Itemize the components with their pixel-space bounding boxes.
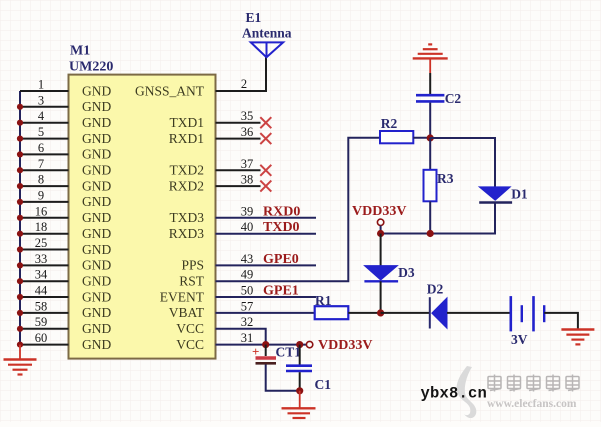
junction dot on GND bus row 3 [17, 136, 23, 142]
svg-text:GND: GND [82, 210, 111, 225]
junction dot on GND bus row 10 [17, 246, 23, 252]
diode D1 [479, 187, 528, 203]
pin 31 wire to VDD33V [216, 331, 307, 345]
svg-text:44: 44 [35, 284, 48, 298]
pin 6 (GND) stub wire [20, 141, 69, 155]
svg-text:VBAT: VBAT [169, 305, 205, 320]
svg-text:38: 38 [241, 173, 254, 187]
svg-text:GNSS_ANT: GNSS_ANT [135, 83, 205, 98]
junction dot on GND bus row 8 [17, 215, 23, 221]
pin 2 wire to antenna [216, 57, 267, 91]
svg-text:3V: 3V [511, 332, 528, 347]
pin 59 (GND) stub wire [20, 315, 69, 329]
svg-text:GND: GND [82, 226, 111, 241]
junction dot on GND bus row 15 [17, 326, 23, 332]
wire D2 to battery [447, 312, 511, 314]
svg-text:M1: M1 [70, 44, 90, 59]
svg-text:32: 32 [241, 315, 254, 329]
svg-text:49: 49 [241, 268, 254, 282]
svg-text:D1: D1 [511, 187, 528, 202]
svg-text:5: 5 [38, 125, 44, 139]
wire node to D1 (top) [430, 138, 495, 187]
junction dot C1 tap node [296, 341, 303, 348]
svg-text:GND: GND [82, 147, 111, 162]
svg-text:UM220: UM220 [69, 60, 113, 75]
wire node to D2 [381, 312, 430, 314]
net label GPE1 [263, 284, 299, 299]
no-connect X mark on pin 36 [260, 133, 271, 144]
pin 36 stub wire [216, 125, 261, 139]
svg-text:E1: E1 [246, 10, 262, 25]
svg-text:GND: GND [82, 99, 111, 114]
net label TXD0 [263, 220, 300, 235]
pin name TXD1 [170, 115, 205, 130]
junction dot on GND bus row 1 [17, 104, 23, 110]
svg-text:VCC: VCC [176, 337, 204, 352]
pin 3 (GND) stub wire [20, 93, 69, 107]
pin 7 (GND) stub wire [20, 157, 69, 171]
pin 25 (GND) stub wire [20, 236, 69, 250]
svg-text:D2: D2 [427, 282, 444, 297]
svg-text:36: 36 [241, 125, 254, 139]
pin 34 (GND) stub wire [20, 268, 69, 282]
pin 33 (GND) stub wire [20, 252, 69, 266]
wire D3 to R1 node [380, 281, 382, 313]
svg-text:RXD1: RXD1 [169, 131, 204, 146]
pin name GND [82, 258, 111, 273]
pin name GND [82, 147, 111, 162]
no-connect X mark on pin 35 [260, 117, 271, 128]
pin 39 net wire [216, 204, 317, 218]
junction dot on GND bus row 12 [17, 278, 23, 284]
junction dot R3 bottom node [427, 230, 434, 237]
svg-text:GND: GND [82, 289, 111, 304]
resistor R2 [380, 116, 413, 143]
junction dot on GND bus row 2 [17, 120, 23, 126]
svg-text:33: 33 [35, 252, 48, 266]
pin 32 wire [216, 315, 266, 344]
svg-text:GND: GND [82, 274, 111, 289]
GND bus wire (left vertical) [19, 91, 21, 345]
pin name EVENT [160, 289, 205, 304]
svg-text:6: 6 [38, 141, 44, 155]
pin 50 net wire [216, 284, 317, 298]
net label GPE0 [263, 252, 299, 267]
svg-text:PPS: PPS [181, 258, 204, 273]
svg-text:ybx8.cn: ybx8.cn [421, 385, 488, 403]
svg-text:TXD1: TXD1 [170, 115, 205, 130]
junction dot on GND bus row 14 [17, 310, 23, 316]
junction dot on GND bus row 5 [17, 167, 23, 173]
resistor R3 [424, 138, 454, 234]
svg-text:GPE0: GPE0 [263, 252, 299, 267]
svg-text:16: 16 [35, 204, 48, 218]
svg-text:31: 31 [241, 331, 254, 345]
pin name TXD3 [170, 210, 205, 225]
pin name RXD1 [169, 131, 204, 146]
svg-text:GND: GND [82, 178, 111, 193]
svg-text:GND: GND [82, 163, 111, 178]
pin name GND [82, 321, 111, 336]
svg-text:RXD2: RXD2 [169, 178, 204, 193]
pin name GND [82, 131, 111, 146]
wire R1 to node [348, 312, 380, 314]
pin name RST [179, 274, 205, 289]
pin 57 wire to R1 [216, 299, 315, 313]
svg-text:VDD33V: VDD33V [318, 338, 372, 353]
capacitor C1 [286, 345, 331, 392]
pin name GND [82, 83, 111, 98]
net label RXD0 [263, 204, 300, 219]
junction dot on GND bus row 6 [17, 183, 23, 189]
pin name PPS [181, 258, 204, 273]
pin 37 stub wire [216, 157, 261, 171]
junction dot on GND bus row 13 [17, 294, 23, 300]
junction dot on GND bus row 4 [17, 151, 23, 157]
battery 3V [511, 296, 544, 347]
junction dot on GND bus row 16 [17, 342, 23, 348]
svg-text:GND: GND [82, 131, 111, 146]
svg-text:58: 58 [35, 299, 48, 313]
junction dot bottom ground node [296, 387, 303, 394]
junction dot R1/D3/D2 node [377, 309, 384, 316]
svg-text:GND: GND [82, 258, 111, 273]
pin name GND [82, 305, 111, 320]
svg-text:57: 57 [241, 299, 254, 313]
svg-text:GND: GND [82, 321, 111, 336]
svg-text:GPE1: GPE1 [263, 284, 299, 299]
pin 40 net wire [216, 220, 317, 234]
svg-text:1: 1 [38, 78, 44, 92]
pin name RXD2 [169, 178, 204, 193]
svg-text:37: 37 [241, 157, 254, 171]
no-connect X mark on pin 38 [260, 181, 271, 192]
diode D2 [427, 282, 447, 329]
svg-text:59: 59 [35, 315, 48, 329]
capacitor C2 [416, 91, 461, 106]
watermark swoosh logo [457, 366, 477, 418]
svg-text:25: 25 [35, 236, 48, 250]
pin 9 (GND) stub wire [20, 188, 69, 202]
ground symbol (top right, red, inverted) [413, 44, 448, 73]
pin 44 (GND) stub wire [20, 284, 69, 298]
wire battery to right ground [544, 313, 578, 330]
pin 43 net wire [216, 252, 317, 266]
svg-text:3: 3 [38, 93, 44, 107]
power port VDD33V (lower) [306, 338, 372, 353]
svg-text:9: 9 [38, 188, 44, 202]
svg-text:7: 7 [38, 157, 44, 171]
svg-text:50: 50 [241, 284, 254, 298]
svg-text:TXD3: TXD3 [170, 210, 205, 225]
svg-text:R1: R1 [315, 293, 332, 308]
pin name VCC (32) [176, 321, 204, 336]
pin name GND [82, 194, 111, 209]
pin name VBAT [169, 305, 205, 320]
pin 5 (GND) stub wire [20, 125, 69, 139]
pin name VCC (31) [176, 337, 204, 352]
svg-text:GND: GND [82, 305, 111, 320]
antenna E1 value label Antenna [242, 26, 292, 41]
svg-text:VCC: VCC [176, 321, 204, 336]
junction dot VDD33V node [377, 230, 384, 237]
junction dot on GND bus row 11 [17, 262, 23, 268]
svg-text:GND: GND [82, 83, 111, 98]
pin 60 (GND) stub wire [20, 331, 69, 345]
capacitor CT1 (polarized) [252, 344, 301, 391]
svg-text:RST: RST [179, 274, 205, 289]
pin 18 (GND) stub wire [20, 220, 69, 234]
wire R2 to node [413, 137, 430, 139]
pin name TXD2 [170, 163, 205, 178]
svg-text:43: 43 [241, 252, 254, 266]
pin 1 (GND) stub wire [20, 78, 69, 92]
watermark chinese characters 电子发烧友 [488, 375, 579, 392]
pin 4 (GND) stub wire [20, 109, 69, 123]
junction dot on GND bus row 7 [17, 199, 23, 205]
svg-text:39: 39 [241, 204, 254, 218]
value UM220 [69, 60, 113, 75]
svg-text:Antenna: Antenna [242, 26, 292, 41]
svg-text:CT1: CT1 [276, 345, 302, 360]
pin 16 (GND) stub wire [20, 204, 69, 218]
pin name GNSS_ANT [135, 83, 205, 98]
no-connect X mark on pin 37 [260, 165, 271, 176]
power port VDD33V (upper) [352, 204, 406, 234]
svg-text:RXD3: RXD3 [169, 226, 205, 241]
svg-text:GND: GND [82, 337, 111, 352]
wire D1 to node row [381, 203, 495, 234]
svg-text:2: 2 [241, 77, 247, 91]
svg-text:60: 60 [35, 331, 48, 345]
pin 8 (GND) stub wire [20, 173, 69, 187]
svg-text:4: 4 [38, 109, 45, 123]
svg-text:35: 35 [241, 109, 254, 123]
wire C2 to node [429, 103, 431, 138]
pin name GND [82, 210, 111, 225]
resistor R1 [315, 293, 349, 319]
svg-text:GND: GND [82, 242, 111, 257]
diode D3 [364, 265, 414, 281]
svg-text:D3: D3 [398, 265, 415, 280]
svg-text:34: 34 [35, 268, 48, 282]
antenna E1 symbol [251, 42, 283, 57]
svg-text:40: 40 [241, 220, 254, 234]
pin name GND [82, 115, 111, 130]
junction dot node R2/C2/R3/D1 [427, 134, 434, 141]
svg-text:C2: C2 [445, 91, 462, 106]
svg-text:R2: R2 [381, 116, 398, 131]
svg-text:8: 8 [38, 173, 44, 187]
wire ground to C2 [429, 73, 431, 94]
svg-text:R3: R3 [437, 171, 454, 186]
wire node to D3 [380, 234, 382, 266]
svg-text:GND: GND [82, 194, 111, 209]
pin name GND [82, 99, 111, 114]
pin 58 (GND) stub wire [20, 299, 69, 313]
pin 49 wire to R2 [216, 138, 381, 282]
svg-text:EVENT: EVENT [160, 289, 205, 304]
designator M1 [70, 44, 90, 59]
pin name GND [82, 289, 111, 304]
watermark ybx8.cn [421, 385, 488, 403]
pin name GND [82, 274, 111, 289]
junction dot VCC pins node [262, 341, 269, 348]
ground symbol (right of battery, red) [561, 330, 594, 345]
svg-text:VDD33V: VDD33V [352, 204, 406, 219]
svg-text:RXD0: RXD0 [263, 204, 300, 219]
antenna E1 designator [246, 10, 262, 25]
pin 35 stub wire [216, 109, 261, 123]
junction dot on GND bus row 9 [17, 231, 23, 237]
pin name GND [82, 337, 111, 352]
pin 38 stub wire [216, 173, 261, 187]
pin name RXD3 [169, 226, 205, 241]
svg-text:C1: C1 [315, 377, 332, 392]
svg-text:www.elecfans.com: www.elecfans.com [487, 398, 577, 410]
svg-text:TXD2: TXD2 [170, 163, 205, 178]
pin name GND [82, 178, 111, 193]
watermark www.elecfans.com [487, 398, 577, 410]
svg-text:TXD0: TXD0 [263, 220, 300, 235]
IC M1 UM220 body [69, 75, 216, 359]
svg-text:GND: GND [82, 115, 111, 130]
pin name GND [82, 163, 111, 178]
pin name GND [82, 226, 111, 241]
svg-text:18: 18 [35, 220, 48, 234]
ground symbol (bottom left, red) [4, 345, 37, 375]
pin name GND [82, 242, 111, 257]
ground symbol (bottom middle, red) [282, 391, 316, 418]
